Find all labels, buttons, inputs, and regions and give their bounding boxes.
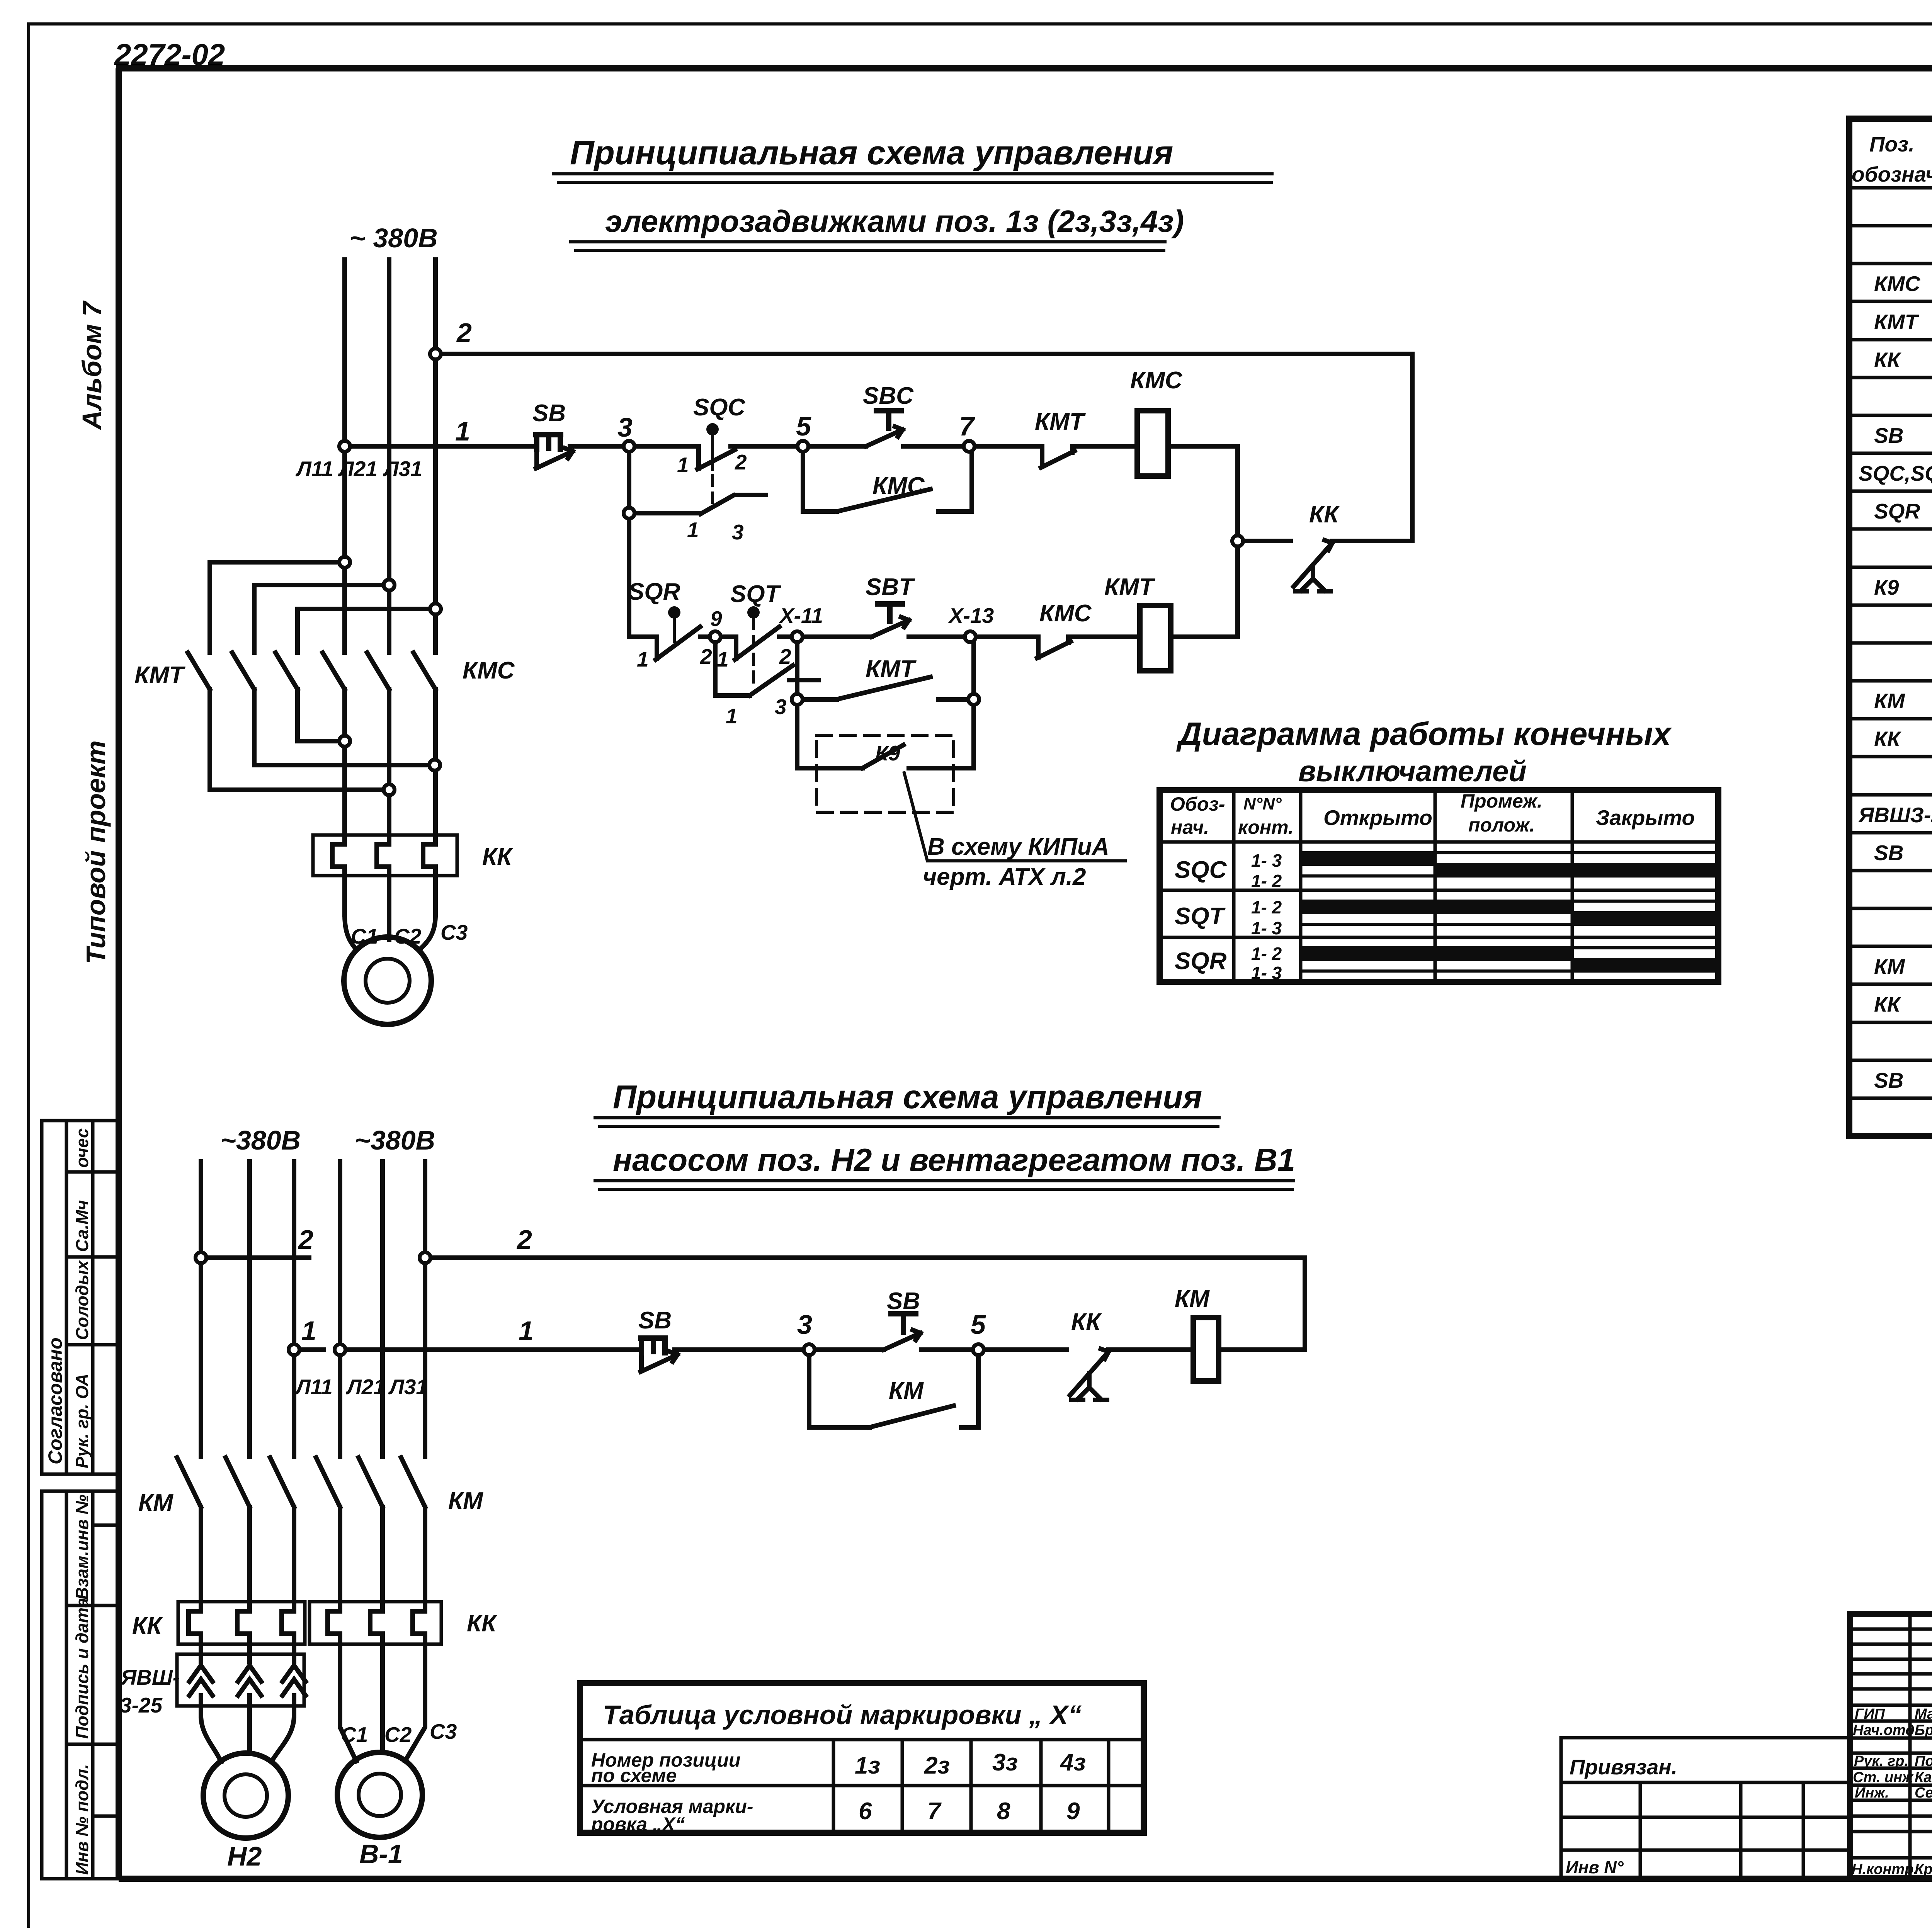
node 5	[798, 441, 808, 452]
svg-text:КМ: КМ	[138, 1490, 173, 1516]
svg-text:SВ: SВ	[532, 400, 566, 427]
svg-text:1: 1	[726, 704, 738, 728]
svg-text:Таблица условной маркировки: Таблица условной маркировки „ Х“	[603, 1700, 1082, 1730]
parts row 18	[1849, 869, 1932, 872]
parts row 21	[1849, 983, 1932, 986]
svg-text:КК: КК	[1071, 1309, 1102, 1335]
svg-text:насосом поз. Н2 и вентагрегат: насосом поз. Н2 и вентагрегатом поз. В1	[613, 1142, 1295, 1178]
svg-text:1з: 1з	[855, 1752, 880, 1779]
main contacts KMC (right set)	[323, 653, 515, 689]
svg-text:Нач.отд.: Нач.отд.	[1853, 1722, 1918, 1738]
svg-text:электрозадвижками поз. 1з (2з: электрозадвижками поз. 1з (2з,3з,4з)	[605, 204, 1184, 238]
thermal relay contact KK control	[1232, 501, 1412, 591]
svg-text:Взам.инв №: Взам.инв №	[72, 1495, 92, 1600]
wire 1 stub H2	[289, 1344, 299, 1355]
svg-text:1: 1	[687, 518, 699, 542]
parts row 12	[1849, 641, 1932, 645]
svg-text:3: 3	[797, 1310, 812, 1340]
stamp block A frame	[42, 1121, 119, 1474]
node crossover A2	[339, 736, 350, 747]
svg-text:КМ: КМ	[1874, 954, 1905, 978]
svg-text:КМТ: КМТ	[866, 656, 917, 682]
node crossover B1	[384, 580, 395, 590]
node 3 bottom	[804, 1344, 815, 1355]
node 7	[964, 441, 975, 452]
outer sheet border top	[29, 22, 1932, 26]
node wire2 B1	[420, 1252, 430, 1263]
fuse box ЯВШ-3-25	[120, 1644, 306, 1717]
coil KM	[1175, 1286, 1219, 1381]
svg-text:SB: SB	[1874, 1068, 1903, 1092]
svg-text:7: 7	[959, 411, 975, 441]
svg-text:Л11: Л11	[295, 457, 333, 481]
svg-text:SQT: SQT	[1175, 903, 1226, 930]
parts row 3	[1849, 300, 1932, 303]
main contacts KMT (left set) with crossover	[134, 557, 441, 795]
wire row 2	[629, 541, 1238, 637]
svg-text:Л21: Л21	[345, 1375, 385, 1399]
svg-text:7: 7	[927, 1798, 942, 1825]
svg-text:КК: КК	[482, 844, 513, 870]
node 9	[710, 631, 721, 642]
svg-text:КМ: КМ	[1874, 689, 1905, 713]
parts row 15	[1849, 755, 1932, 759]
marking table frame	[580, 1683, 1144, 1833]
parts row 19	[1849, 907, 1932, 910]
svg-text:2: 2	[779, 645, 791, 668]
wire line 1 (B1)	[335, 1344, 345, 1355]
parts row 16	[1849, 793, 1932, 797]
thermal relay KK heater box	[313, 835, 513, 876]
inner frame bottom	[119, 1876, 1932, 1882]
svg-text:Закрыто: Закрыто	[1596, 806, 1695, 830]
svg-text:Инв № подл.: Инв № подл.	[72, 1764, 92, 1875]
svg-text:1- 2: 1- 2	[1251, 897, 1282, 917]
svg-text:Открыто: Открыто	[1323, 806, 1432, 830]
svg-text:5: 5	[971, 1310, 986, 1340]
push button SB (break) bottom	[638, 1307, 677, 1372]
svg-text:Принципиальная схема управле: Принципиальная схема управления	[570, 134, 1173, 172]
wire 2 stub H2	[196, 1252, 206, 1263]
wire phase Л21 vertical	[387, 260, 391, 940]
parts row 24	[1849, 1097, 1932, 1100]
parts row 5	[1849, 376, 1932, 379]
svg-text:КК: КК	[467, 1610, 498, 1637]
svg-text:С3: С3	[440, 920, 468, 944]
svg-text:Л11: Л11	[294, 1375, 333, 1399]
parts row 22	[1849, 1021, 1932, 1024]
svg-text:~380В: ~380В	[355, 1125, 435, 1155]
svg-text:С3: С3	[430, 1719, 457, 1743]
svg-text:КМТ: КМТ	[134, 662, 186, 689]
svg-text:ЯВШЗ-25: ЯВШЗ-25	[1858, 803, 1932, 827]
svg-text:Диаграмма работы конечных: Диаграмма работы конечных	[1176, 716, 1672, 752]
self-hold contact KMC parallel SBC	[803, 446, 972, 512]
privyazan box	[1561, 1738, 1850, 1878]
svg-text:SB: SB	[1874, 423, 1903, 447]
svg-text:1: 1	[637, 647, 649, 671]
svg-text:1: 1	[717, 647, 729, 671]
junction rings overlay	[196, 349, 1243, 1355]
svg-text:КМС: КМС	[1130, 367, 1183, 394]
parts row 2	[1849, 262, 1932, 265]
svg-text:6: 6	[859, 1798, 872, 1825]
svg-text:Принципиальная схема управле: Принципиальная схема управления	[613, 1079, 1202, 1116]
main contacts KM (B1)	[316, 1458, 483, 1602]
parts row 7	[1849, 452, 1932, 455]
svg-text:В-1: В-1	[359, 1839, 403, 1869]
svg-text:2: 2	[298, 1225, 313, 1255]
svg-text:5: 5	[796, 411, 811, 441]
stamp block B frame	[42, 1491, 119, 1879]
svg-text:1- 3: 1- 3	[1251, 850, 1282, 871]
node X-13	[965, 631, 976, 642]
svg-text:1: 1	[455, 416, 470, 446]
svg-text:Са.Мч: Са.Мч	[72, 1200, 92, 1252]
svg-text:Н.контр.: Н.контр.	[1852, 1861, 1918, 1878]
svg-text:Инж.: Инж.	[1855, 1785, 1889, 1801]
parts row 9	[1849, 527, 1932, 531]
svg-text:Л21: Л21	[338, 457, 378, 481]
svg-text:SQR: SQR	[1175, 948, 1227, 975]
node wire1 B1	[335, 1344, 345, 1355]
svg-text:SQC: SQC	[693, 394, 746, 421]
svg-text:конт.: конт.	[1238, 816, 1294, 838]
wire phase Л11 vertical	[342, 260, 347, 915]
svg-text:1: 1	[519, 1316, 534, 1346]
svg-text:полож.: полож.	[1468, 814, 1535, 836]
svg-text:2: 2	[700, 645, 712, 668]
node 9	[710, 631, 721, 642]
svg-text:X-13: X-13	[948, 604, 994, 628]
svg-text:черт. АТХ л.2: черт. АТХ л.2	[923, 864, 1086, 890]
motor B-1	[337, 1644, 457, 1869]
push button SBC (make)	[863, 383, 914, 446]
svg-text:1- 3: 1- 3	[1251, 963, 1282, 983]
parts row 1	[1849, 224, 1932, 228]
svg-text:Каржулова: Каржулова	[1915, 1769, 1932, 1786]
svg-text:КК: КК	[1309, 501, 1340, 528]
node X-11	[792, 631, 803, 642]
svg-text:Подпись и дата: Подпись и дата	[72, 1598, 92, 1739]
svg-text:Промеж.: Промеж.	[1461, 790, 1543, 812]
motor H2	[201, 1716, 294, 1871]
svg-text:по схеме: по схеме	[591, 1765, 677, 1786]
svg-text:Обоз-: Обоз-	[1170, 793, 1225, 815]
svg-text:КК: КК	[1874, 992, 1901, 1016]
node 3 bottom	[804, 1344, 815, 1355]
push button SBT (make)	[866, 574, 915, 637]
contact KMT auxiliary NC on line 1	[1035, 408, 1086, 468]
outer sheet border left	[27, 24, 30, 1926]
svg-text:К9: К9	[875, 741, 900, 765]
parts row 13	[1849, 679, 1932, 683]
svg-text:N°N°: N°N°	[1243, 794, 1282, 813]
node Л11-line1	[339, 441, 350, 452]
limit switch SQC contact 1-2	[677, 394, 747, 477]
self-hold contact KM bottom	[809, 1350, 978, 1427]
limit switch SQT contact 1-3 branch	[715, 637, 818, 728]
svg-text:2з: 2з	[924, 1752, 950, 1779]
svg-text:X-11: X-11	[779, 604, 823, 628]
svg-text:Н2: Н2	[227, 1841, 262, 1871]
svg-text:КК: КК	[132, 1612, 163, 1639]
svg-text:Солодых: Солодых	[72, 1260, 92, 1340]
push button SB (make) bottom	[884, 1288, 920, 1350]
limit switch SQT contact	[717, 581, 791, 684]
svg-text:SQT: SQT	[730, 581, 782, 607]
svg-text:обознач.: обознач.	[1852, 162, 1932, 186]
svg-text:КМ: КМ	[1175, 1286, 1210, 1312]
svg-text:1: 1	[677, 453, 689, 477]
svg-text:ЯВШ-: ЯВШ-	[120, 1665, 180, 1689]
svg-text:2: 2	[516, 1225, 532, 1255]
svg-text:КМС: КМС	[1039, 600, 1092, 627]
node KMT-hold right	[968, 694, 979, 705]
svg-text:ровка „Х“: ровка „Х“	[590, 1813, 685, 1835]
parts row 25	[1849, 1134, 1932, 1138]
wire line 1	[345, 446, 1238, 541]
svg-text:SQR: SQR	[1874, 499, 1920, 523]
svg-text:Крючков: Крючков	[1915, 1861, 1932, 1878]
svg-text:1: 1	[301, 1316, 316, 1346]
node crossover A1	[339, 557, 350, 568]
svg-text:С2: С2	[384, 1723, 412, 1747]
svg-text:2: 2	[735, 450, 747, 474]
svg-text:КМС: КМС	[872, 473, 925, 499]
main contacts KM (H2)	[138, 1458, 294, 1602]
node line1 on Л11	[339, 441, 350, 452]
parts row 4	[1849, 338, 1932, 342]
svg-text:SBC: SBC	[863, 383, 914, 409]
svg-text:4з: 4з	[1060, 1749, 1086, 1776]
svg-text:КМС: КМС	[463, 657, 515, 684]
svg-text:2: 2	[456, 318, 472, 348]
limit switch SQR contact	[628, 578, 712, 671]
node Л31-line2	[430, 349, 441, 359]
svg-text:Пономарев: Пономарев	[1915, 1753, 1932, 1769]
svg-text:~ 380В: ~ 380В	[350, 223, 438, 253]
svg-text:Альбом 7: Альбом 7	[77, 300, 107, 430]
svg-text:Бредкин: Бредкин	[1915, 1722, 1932, 1738]
coil KMT	[1104, 574, 1171, 671]
node SQC-13 branch	[624, 508, 634, 519]
thermal relay KK heater box B1	[310, 1602, 498, 1644]
svg-text:1- 3: 1- 3	[1251, 918, 1282, 938]
svg-text:Типовой проект: Типовой проект	[81, 740, 111, 964]
motor valve drive	[344, 915, 468, 1024]
node KMT-hold left	[792, 694, 803, 705]
svg-text:Инв N°: Инв N°	[1566, 1857, 1624, 1877]
parts row 20	[1849, 945, 1932, 948]
node crossover B2	[384, 784, 395, 795]
node KK junction	[1232, 536, 1243, 546]
svg-text:ГИП: ГИП	[1855, 1706, 1885, 1722]
svg-text:3з: 3з	[992, 1749, 1018, 1776]
svg-text:Поз.: Поз.	[1869, 132, 1915, 156]
svg-text:КМТ: КМТ	[1104, 574, 1156, 600]
parts list table frame	[1849, 119, 1932, 1136]
node X-13	[965, 631, 976, 642]
node wire2 H2	[196, 1252, 206, 1263]
svg-text:1- 2: 1- 2	[1251, 871, 1282, 891]
relay contact K9 branch	[797, 699, 1125, 890]
coil KMC	[1130, 367, 1183, 476]
svg-text:К9: К9	[1874, 575, 1899, 599]
svg-text:КМ: КМ	[889, 1378, 924, 1404]
svg-text:КМС: КМС	[1874, 272, 1921, 296]
svg-text:КК: КК	[1874, 348, 1901, 372]
node 3	[624, 441, 634, 452]
contact KMC auxiliary NC on row 2	[1037, 600, 1092, 658]
inner frame left	[116, 68, 122, 1879]
svg-text:Рук. гр. ОА: Рук. гр. ОА	[72, 1374, 92, 1468]
parts row 6	[1849, 414, 1932, 417]
self-hold contact KMT branch	[792, 637, 979, 705]
node crossover C2	[429, 760, 440, 770]
svg-text:SB: SB	[638, 1307, 672, 1334]
svg-text:3: 3	[775, 695, 787, 719]
svg-text:нач.: нач.	[1171, 816, 1209, 838]
svg-text:выключателей: выключателей	[1298, 755, 1527, 788]
svg-text:1- 2: 1- 2	[1251, 944, 1282, 964]
parts row 8	[1849, 490, 1932, 493]
svg-text:Маркитедо: Маркитедо	[1915, 1706, 1932, 1722]
push button SB (break) on line 1	[532, 400, 573, 468]
diagram table frame	[1160, 790, 1718, 982]
parts row 14	[1849, 717, 1932, 721]
svg-text:SQR: SQR	[628, 578, 680, 605]
node 3	[624, 441, 634, 452]
svg-text:КМТ: КМТ	[1035, 408, 1086, 435]
parts row 17	[1849, 831, 1932, 835]
svg-text:Л31: Л31	[383, 457, 422, 481]
svg-text:КМ: КМ	[448, 1488, 483, 1514]
svg-text:SBT: SBT	[866, 574, 915, 600]
svg-text:9: 9	[1066, 1798, 1080, 1825]
svg-text:Рук. гр.: Рук. гр.	[1854, 1753, 1908, 1769]
svg-text:8: 8	[997, 1798, 1010, 1825]
thermal relay KK heater box H2	[132, 1602, 305, 1644]
limit switch SQC contact 1-3 branch	[624, 446, 766, 637]
parts row 10	[1849, 566, 1932, 569]
svg-text:SQC,SQT: SQC,SQT	[1859, 461, 1932, 485]
svg-text:С1: С1	[341, 1723, 368, 1747]
inner frame top	[116, 65, 1932, 71]
parts row 11	[1849, 604, 1932, 607]
H2 phase verticals	[201, 1162, 294, 1457]
svg-text:Согласовано: Согласовано	[44, 1337, 66, 1464]
svg-text:3: 3	[617, 412, 633, 442]
svg-text:SB: SB	[1874, 841, 1903, 865]
svg-text:В схему КИПиА: В схему КИПиА	[927, 833, 1109, 860]
svg-text:Привязан.: Привязан.	[1570, 1755, 1677, 1779]
svg-text:SQC: SQC	[1175, 857, 1227, 883]
svg-text:3-25: 3-25	[120, 1693, 163, 1717]
node 5 bottom	[973, 1344, 984, 1355]
node X-11	[792, 631, 803, 642]
B1 phase verticals	[340, 1162, 425, 1457]
svg-text:Л31: Л31	[388, 1375, 428, 1399]
svg-text:~380В: ~380В	[220, 1125, 301, 1155]
svg-text:SB: SB	[887, 1288, 920, 1315]
node 5	[798, 441, 808, 452]
svg-text:КК: КК	[1874, 727, 1901, 751]
wire line 2	[435, 354, 1412, 541]
parts row 23	[1849, 1059, 1932, 1062]
svg-text:КМТ: КМТ	[1874, 310, 1920, 334]
node wire1 H2	[289, 1344, 299, 1355]
svg-text:очес: очес	[72, 1128, 92, 1168]
wire line 2 (B1)	[420, 1252, 430, 1263]
node 5 bottom	[973, 1344, 984, 1355]
node on Л31 line 2	[430, 349, 441, 359]
svg-text:9: 9	[710, 607, 722, 631]
node 7	[964, 441, 975, 452]
title block frame	[1850, 1614, 1932, 1878]
signature grid	[1850, 1614, 1932, 1878]
thermal relay contact KK bottom	[1070, 1309, 1109, 1400]
node crossover C1	[430, 604, 441, 614]
svg-text:Ст. инж: Ст. инж	[1853, 1769, 1914, 1786]
svg-text:3: 3	[732, 520, 744, 544]
svg-text:Селеверстов: Селеверстов	[1915, 1785, 1932, 1801]
wire phase Л31 vertical	[433, 260, 438, 915]
